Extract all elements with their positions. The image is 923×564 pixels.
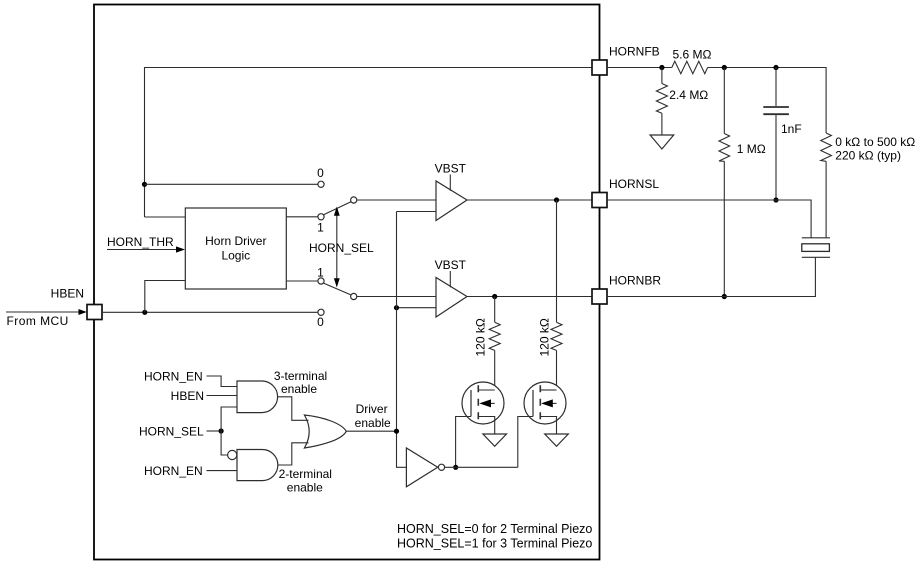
svg-text:HORN_SEL: HORN_SEL	[309, 241, 374, 255]
label 1 switch2	[317, 266, 324, 280]
wire HORN_EN to and1	[207, 376, 238, 387]
amplifier A1 VBST	[435, 162, 467, 221]
svg-text:2-terminal: 2-terminal	[279, 467, 332, 481]
wire feedback to Horn Driver Logic	[145, 216, 186, 218]
resistor R2 2.4 M	[656, 68, 667, 136]
switch SW2 throw 1	[318, 278, 324, 284]
wire HBEN to switch2 throw0	[102, 311, 318, 313]
svg-text:HORN_EN: HORN_EN	[144, 464, 203, 478]
terminal HBEN arrow From MCU	[6, 309, 87, 315]
label 0 switch2	[317, 315, 324, 329]
wire amp2 enable	[397, 307, 437, 309]
node inverter output	[453, 465, 458, 470]
label HORN_SEL	[309, 241, 374, 255]
wire and2 to or1	[278, 443, 309, 465]
node HORNFB-R1	[659, 65, 664, 70]
label R4 line2	[835, 149, 901, 163]
resistor R5 120k	[489, 297, 500, 391]
wire enable vertical	[397, 212, 407, 468]
svg-text:0: 0	[317, 166, 324, 180]
svg-text:0: 0	[317, 315, 324, 329]
switch SW1 throw 0	[318, 181, 324, 187]
svg-text:Horn Driver: Horn Driver	[205, 234, 266, 248]
signal HORN_SEL arrow double	[334, 207, 340, 288]
gate AND1 3-terminal	[237, 381, 278, 413]
switch SW1 blade	[324, 202, 351, 215]
svg-text:120 kΩ: 120 kΩ	[474, 318, 488, 356]
svg-text:HORN_SEL=0 for 2 Terminal Piez: HORN_SEL=0 for 2 Terminal Piezo	[397, 522, 592, 536]
wire HORNSL to piezo	[607, 200, 811, 238]
svg-text:From MCU: From MCU	[7, 314, 69, 328]
terminal HORNSL pad	[592, 193, 607, 208]
label From MCU	[7, 314, 69, 328]
switch SW2 throw 0	[318, 309, 324, 315]
svg-text:enable: enable	[355, 416, 391, 430]
wire or1 to driver enable node	[346, 430, 396, 432]
resistor R6 120k	[551, 200, 562, 390]
transistor Q1 nmos	[456, 382, 504, 467]
svg-text:HBEN: HBEN	[171, 389, 204, 403]
svg-text:0 kΩ to 500 kΩ: 0 kΩ to 500 kΩ	[835, 135, 915, 149]
switch SW1 common	[351, 197, 357, 203]
wire HORNFB feedback top	[145, 68, 593, 218]
wire inverter out to gates	[445, 466, 518, 468]
wire HORN_SEL to and1 input3	[221, 407, 237, 431]
wire HORN_EN to and2	[207, 470, 238, 472]
wire R1 to corner	[708, 68, 827, 134]
svg-text:Logic: Logic	[221, 249, 250, 263]
svg-text:HORNFB: HORNFB	[609, 45, 660, 59]
ground Q1	[483, 434, 507, 446]
svg-text:HORN_SEL=1 for 3 Terminal Piez: HORN_SEL=1 for 3 Terminal Piezo	[397, 537, 592, 551]
node feedback junction	[142, 182, 147, 187]
node HORNBR-R5	[492, 294, 497, 299]
label R5 120k	[474, 318, 488, 356]
svg-text:1: 1	[317, 221, 324, 235]
switch SW2 common	[351, 293, 357, 299]
label HORN_SEL gate	[139, 424, 204, 438]
node amp2 enable junction	[394, 305, 399, 310]
capacitor C1 1nF	[763, 68, 789, 201]
node HBEN junction	[142, 310, 147, 315]
label HORN_THR	[107, 235, 174, 249]
label 1nF	[781, 122, 802, 136]
block Horn Driver Logic U1	[185, 208, 286, 289]
node R1-C1	[773, 65, 778, 70]
svg-text:Driver: Driver	[356, 402, 388, 416]
node driver enable	[394, 429, 399, 434]
wire HBEN branch to logic box	[145, 281, 186, 313]
label HORNSL	[609, 177, 659, 191]
switch SW1 throw 1	[318, 214, 324, 220]
svg-text:3-terminal: 3-terminal	[274, 369, 327, 383]
label HBEN	[51, 287, 84, 301]
wire HORN_SEL node	[207, 428, 224, 433]
label HORNFB	[609, 45, 660, 59]
svg-text:VBST: VBST	[435, 258, 467, 272]
svg-text:1 MΩ: 1 MΩ	[737, 142, 766, 156]
terminal HBEN pad	[87, 305, 102, 320]
ground Q2	[545, 434, 569, 446]
resistor R3 1 M	[719, 68, 730, 297]
transistor Q2 nmos	[518, 382, 566, 467]
svg-text:HORNSL: HORNSL	[609, 177, 659, 191]
wire amp1 enable	[397, 211, 437, 213]
gate OR1	[304, 415, 346, 448]
label HORNBR	[609, 274, 661, 288]
note text bottom	[397, 522, 592, 551]
node C1-HORNSL	[773, 197, 778, 202]
svg-text:120 kΩ: 120 kΩ	[537, 318, 551, 356]
label HORN_EN top	[144, 369, 203, 383]
signal HORN_THR arrow	[107, 246, 185, 252]
svg-text:HORNBR: HORNBR	[609, 274, 661, 288]
svg-text:VBST: VBST	[435, 162, 467, 176]
label 2-terminal enable	[279, 467, 332, 481]
gate AND2 2-terminal inverted input	[228, 450, 278, 481]
svg-text:1nF: 1nF	[781, 122, 802, 136]
svg-text:2.4 MΩ: 2.4 MΩ	[669, 88, 708, 102]
svg-text:HORN_THR: HORN_THR	[107, 235, 174, 249]
label Driver enable	[355, 402, 391, 430]
label R4 line1	[835, 135, 915, 149]
wire HORN_SEL to and2 inverted input	[221, 431, 227, 455]
svg-text:HBEN: HBEN	[51, 287, 84, 301]
wire amp2 out to HORNBR	[467, 296, 592, 298]
label 5.6 M	[673, 48, 712, 62]
label 3-terminal enable	[274, 369, 327, 396]
label HBEN gate	[171, 389, 204, 403]
wire logic out1 to switch1 throw1	[286, 216, 318, 218]
wire HORNFB to node	[607, 67, 672, 69]
label R6 120k	[537, 318, 551, 356]
wire amp1 out to HORNSL	[467, 199, 592, 201]
piezo transducer X1	[802, 238, 830, 257]
wire piezo to HORNBR	[607, 257, 815, 296]
svg-text:HORN_EN: HORN_EN	[144, 369, 203, 383]
svg-text:enable: enable	[287, 480, 323, 494]
ground R2	[650, 135, 674, 149]
svg-text:5.6 MΩ: 5.6 MΩ	[673, 48, 712, 62]
IC boundary rectangle	[94, 5, 600, 560]
node R1-R3	[722, 65, 727, 70]
label HORN_EN bottom	[144, 464, 203, 478]
resistor R1 5.6 M	[672, 61, 708, 73]
label 1 switch1	[317, 221, 324, 235]
node HORNSL-R6	[554, 197, 559, 202]
inverter U2	[406, 448, 444, 487]
switch SW2 blade	[324, 283, 351, 295]
wire SW2 common to amp2	[357, 296, 436, 298]
amplifier A2 VBST	[435, 258, 467, 317]
svg-text:HORN_SEL: HORN_SEL	[139, 424, 204, 438]
label 0 switch1	[317, 166, 324, 180]
wire HBEN to and1	[207, 395, 238, 397]
node R3-HORNBR	[722, 294, 727, 299]
label 2.4 M	[669, 88, 708, 102]
svg-text:enable: enable	[281, 382, 317, 396]
label 1 M	[737, 142, 766, 156]
terminal HORNFB pad	[592, 60, 607, 75]
wire and1 to or1	[278, 397, 309, 421]
wire switch1 throw0 stub	[145, 183, 318, 185]
terminal HORNBR pad	[592, 289, 607, 304]
wire logic out2 to switch2 throw1	[286, 280, 318, 282]
wire SW1 common to amp1	[357, 199, 436, 201]
resistor R4 0-500k	[821, 133, 832, 238]
svg-text:220 kΩ (typ): 220 kΩ (typ)	[835, 149, 901, 163]
